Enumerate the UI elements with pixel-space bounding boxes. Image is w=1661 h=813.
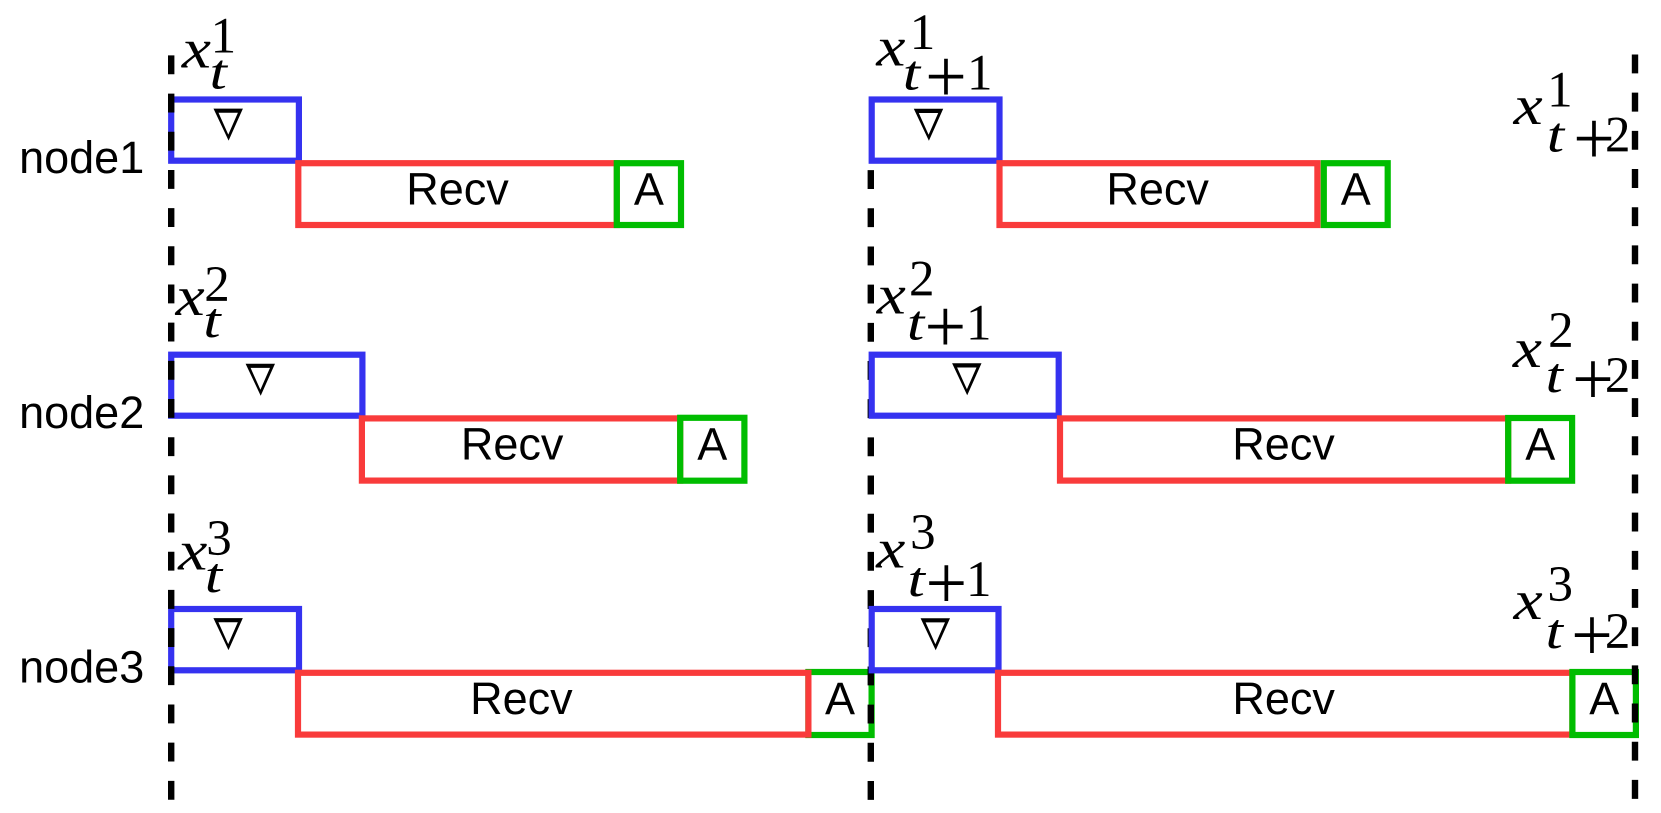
blue box grad node1 t+1 <box>872 100 1000 161</box>
svg-text:x: x <box>175 266 205 328</box>
math x_{t+2}^2 <box>1512 303 1631 422</box>
green box A node3 t+1 <box>1572 672 1636 735</box>
svg-text:A: A <box>634 163 664 214</box>
svg-text:+: + <box>925 35 967 119</box>
red box recv node3 t+1 <box>998 673 1572 735</box>
svg-text:Recv: Recv <box>406 163 509 214</box>
math x_{t+1}^1 <box>875 5 992 119</box>
green box A node1 t+1 <box>1324 163 1388 225</box>
green box A node2 t+1 <box>1508 418 1572 481</box>
svg-text:t: t <box>205 549 224 604</box>
blue box grad node3 t <box>171 609 299 670</box>
green box A node1 t <box>617 163 681 225</box>
svg-text:x: x <box>876 265 906 327</box>
math x_{t+2}^1 <box>1513 63 1631 181</box>
svg-text:x: x <box>1513 570 1543 632</box>
blue box grad node1 t <box>171 100 299 161</box>
svg-text:t: t <box>1546 605 1565 660</box>
dashed timeline t <box>168 55 174 799</box>
svg-text:t: t <box>903 46 922 101</box>
svg-text:node1: node1 <box>19 132 144 183</box>
svg-text:2: 2 <box>1605 348 1631 404</box>
nabla node3 t <box>213 618 242 650</box>
red box recv node1 t+1 <box>1000 163 1318 225</box>
svg-text:t: t <box>210 45 229 100</box>
svg-text:x: x <box>875 519 905 581</box>
svg-text:2: 2 <box>1605 107 1631 163</box>
svg-text:Recv: Recv <box>1232 418 1335 469</box>
math x_t^1 <box>181 8 236 100</box>
svg-text:+: + <box>925 541 967 625</box>
svg-text:1: 1 <box>967 46 993 102</box>
svg-text:t: t <box>907 296 926 351</box>
svg-text:Recv: Recv <box>1106 163 1209 214</box>
svg-text:Recv: Recv <box>1232 673 1335 724</box>
nabla node2 t <box>246 364 275 396</box>
svg-text:1: 1 <box>966 296 992 352</box>
svg-text:t: t <box>1547 108 1566 163</box>
green box A node3 t <box>808 672 871 735</box>
math x_{t+1}^3 <box>875 505 991 626</box>
svg-text:t: t <box>203 294 222 349</box>
svg-text:x: x <box>181 19 211 81</box>
red box recv node3 t <box>298 673 808 735</box>
svg-text:1: 1 <box>966 552 992 608</box>
math x_{t+2}^3 <box>1513 557 1631 678</box>
math x_{t+1}^2 <box>876 251 992 369</box>
red box recv node1 t <box>298 163 617 225</box>
green box A node2 t <box>680 418 744 481</box>
red box recv node2 t+1 <box>1060 418 1508 480</box>
math x_t^2 <box>175 257 230 349</box>
svg-text:A: A <box>1589 673 1619 724</box>
red box recv node2 t <box>362 418 680 480</box>
blue box grad node2 t+1 <box>872 355 1059 416</box>
svg-text:t: t <box>908 553 927 608</box>
svg-text:A: A <box>697 418 727 469</box>
nabla node3 t+1 <box>921 618 950 650</box>
svg-text:x: x <box>1512 318 1542 380</box>
svg-text:x: x <box>875 17 905 79</box>
svg-text:Recv: Recv <box>461 418 564 469</box>
nabla node2 t+1 <box>952 363 981 395</box>
svg-text:node2: node2 <box>19 387 144 438</box>
blue box grad node3 t+1 <box>872 609 999 670</box>
svg-text:x: x <box>177 521 207 583</box>
svg-text:A: A <box>1341 163 1371 214</box>
dashed timeline t+2 <box>1632 55 1638 801</box>
svg-text:A: A <box>825 673 855 724</box>
svg-text:node3: node3 <box>19 642 144 693</box>
svg-text:t: t <box>1546 349 1565 404</box>
math x_t^3 <box>177 511 232 603</box>
svg-text:Recv: Recv <box>470 673 573 724</box>
blue box grad node2 t <box>171 355 362 416</box>
svg-text:x: x <box>1513 75 1543 137</box>
nabla node1 t+1 <box>914 109 943 141</box>
nabla node1 t <box>214 109 243 141</box>
svg-text:A: A <box>1525 418 1555 469</box>
svg-text:2: 2 <box>1605 604 1631 660</box>
dashed timeline t+1 <box>868 170 874 800</box>
svg-text:+: + <box>924 285 966 369</box>
